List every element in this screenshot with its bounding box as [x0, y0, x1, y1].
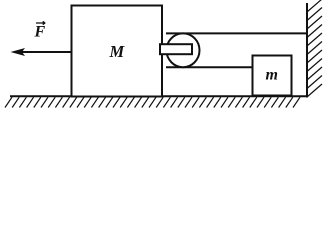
pulley axle bracket [160, 44, 192, 54]
svg-text:M: M [109, 42, 126, 61]
rope bottom segment (pulley to block m) [166, 66, 253, 68]
svg-text:F: F [34, 24, 46, 41]
block m [253, 56, 292, 96]
ground line [10, 95, 308, 97]
pulley wheel [167, 33, 200, 67]
wall hatching [307, 0, 322, 97]
block M [72, 6, 163, 97]
force arrowhead [11, 48, 26, 56]
wall line [306, 3, 308, 98]
ground hatching [5, 97, 300, 107]
rope top segment (pulley to wall) [166, 32, 307, 34]
force arrow line [20, 51, 72, 53]
vector bar over F [36, 21, 45, 24]
svg-text:m: m [266, 67, 278, 84]
